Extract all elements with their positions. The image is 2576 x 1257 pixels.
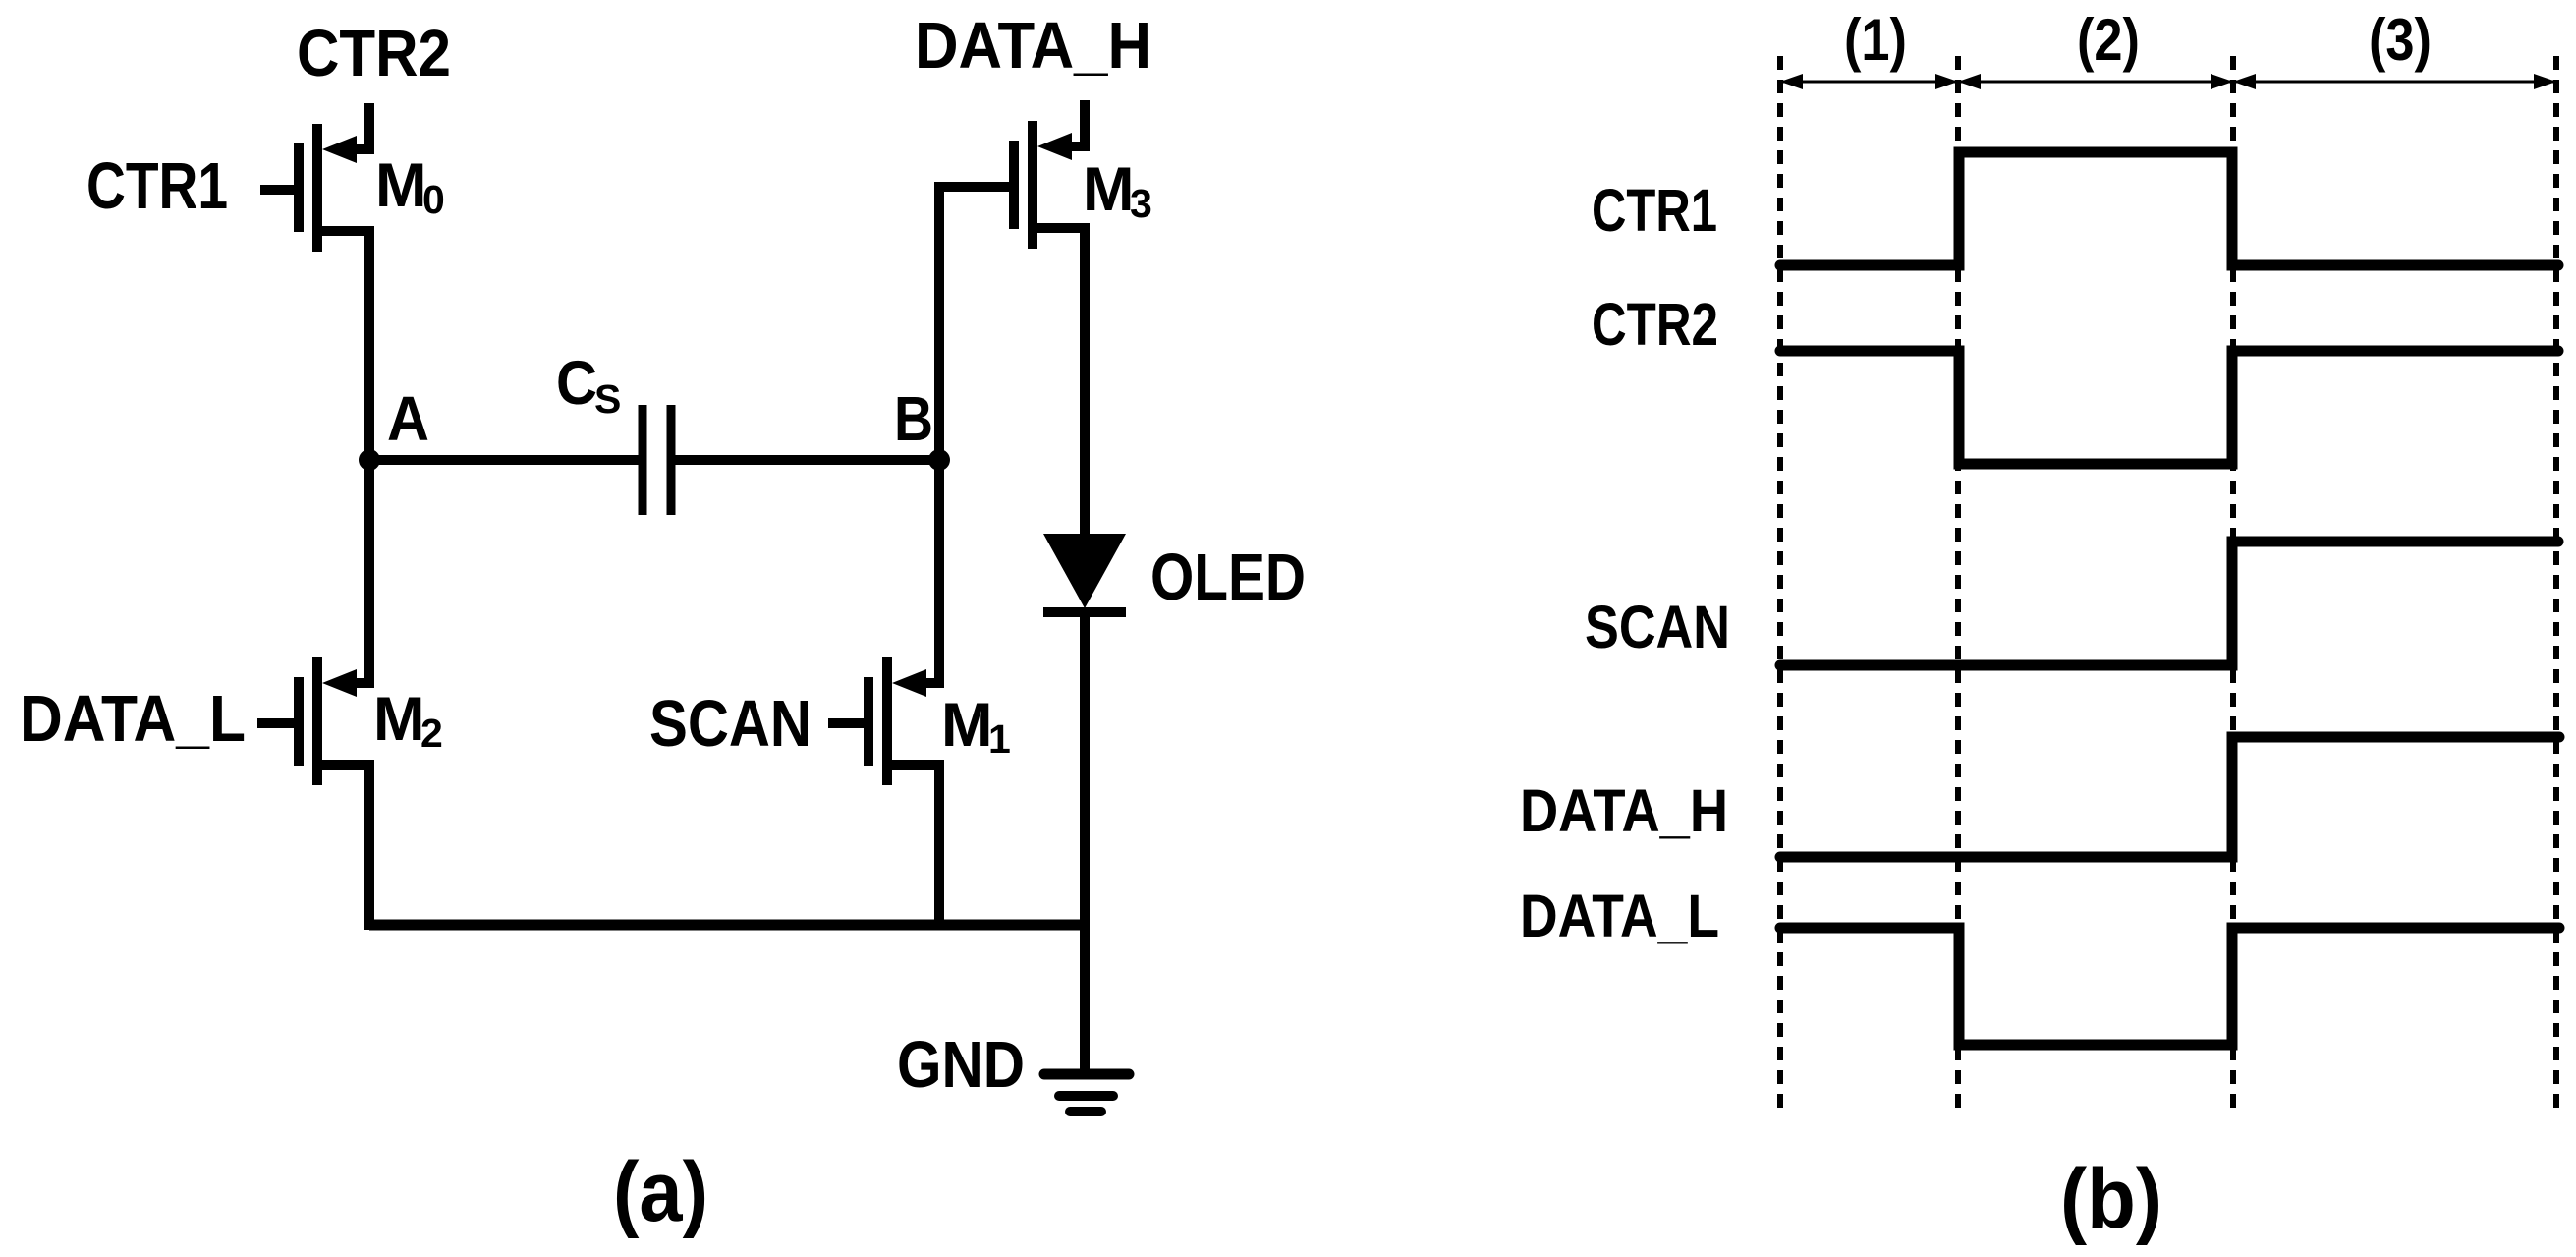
waveform DATA_L [1780, 928, 2559, 1045]
svg-text:C: C [556, 349, 597, 418]
svg-text:(a): (a) [613, 1145, 708, 1239]
svg-text:SCAN: SCAN [1585, 594, 1730, 660]
svg-text:(2): (2) [2077, 7, 2140, 73]
transistor M0 [299, 103, 369, 252]
svg-text:M: M [373, 685, 424, 754]
svg-text:OLED: OLED [1150, 541, 1306, 614]
svg-text:DATA_L: DATA_L [20, 682, 246, 756]
svg-text:CTR2: CTR2 [297, 17, 451, 90]
waveform SCAN [1780, 542, 2558, 665]
wire gate lead of M0 from CTR1 [260, 185, 295, 195]
waveform DATA_H [1780, 737, 2559, 857]
svg-text:GND: GND [897, 1028, 1025, 1102]
capacitor CS [639, 405, 647, 515]
wire OLED to ground column [1080, 617, 1090, 1073]
wire gate lead of M2 from DATA_L [257, 718, 295, 728]
node B [928, 449, 950, 471]
svg-text:M: M [941, 691, 992, 760]
svg-text:B: B [894, 383, 933, 454]
wire capacitor to node B [674, 455, 939, 465]
svg-text:CTR1: CTR1 [86, 149, 228, 223]
dimension arrow phase 3 [2236, 81, 2553, 84]
svg-text:M: M [375, 151, 426, 220]
transistor M1 [868, 637, 939, 785]
waveform CTR1 [1780, 152, 2558, 265]
wire M0 drain / node A column / M2 source [364, 229, 374, 685]
dashed time boundary line t1 [1955, 56, 1961, 1117]
wire bottom rail [369, 920, 1085, 931]
svg-text:(3): (3) [2369, 7, 2432, 73]
transistor M3 [1014, 100, 1085, 249]
dashed time boundary line t2 [2230, 56, 2236, 1117]
wire gate lead of M3 [934, 182, 1010, 192]
svg-text:(b): (b) [2060, 1152, 2162, 1246]
wire M1 drain to rail [934, 765, 944, 930]
dashed time boundary line t3 [2553, 56, 2559, 1117]
OLED diode [1043, 534, 1126, 608]
svg-text:DATA_L: DATA_L [1520, 883, 1719, 949]
node A [359, 449, 380, 471]
svg-text:1: 1 [988, 716, 1011, 762]
svg-text:M: M [1083, 155, 1134, 224]
svg-text:CTR1: CTR1 [1592, 177, 1717, 244]
dimension arrow phase 1 [1783, 81, 1955, 84]
svg-text:2: 2 [420, 711, 443, 756]
svg-text:DATA_H: DATA_H [915, 9, 1151, 83]
svg-text:3: 3 [1130, 181, 1152, 226]
svg-text:CTR2: CTR2 [1592, 291, 1718, 358]
waveform CTR2 [1780, 351, 2558, 464]
transistor M2 [299, 637, 369, 785]
wire M2 drain to rail [364, 765, 374, 930]
dashed time boundary line t0 [1777, 56, 1783, 1117]
wire gate lead of M1 from SCAN [828, 718, 865, 728]
svg-text:DATA_H: DATA_H [1520, 777, 1728, 844]
dimension arrow phase 2 [1961, 81, 2230, 84]
svg-text:A: A [387, 383, 429, 454]
wire M3 drain to OLED [1080, 233, 1090, 539]
svg-text:SCAN: SCAN [649, 687, 812, 761]
wire node B column (M3 gate to M1 source) [934, 187, 944, 685]
svg-text:(1): (1) [1844, 7, 1907, 73]
svg-text:S: S [594, 376, 621, 422]
svg-text:0: 0 [422, 177, 445, 222]
wire node A to capacitor [369, 455, 640, 465]
